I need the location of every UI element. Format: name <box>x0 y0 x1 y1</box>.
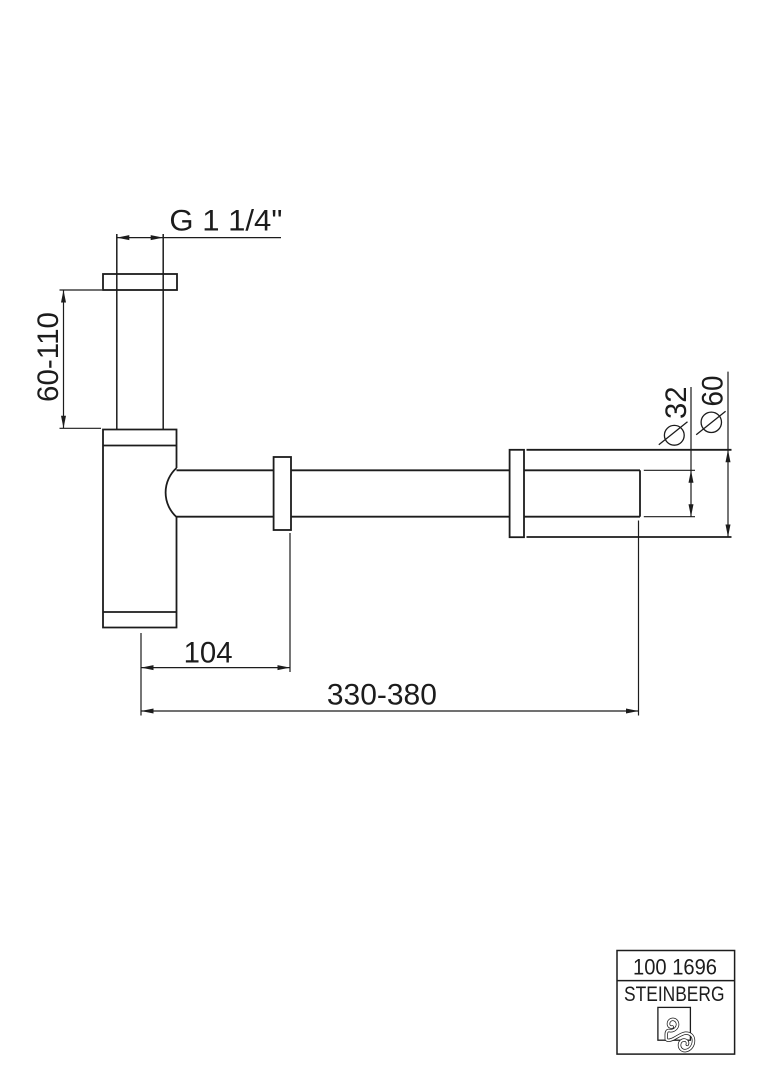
svg-text:330-380: 330-380 <box>327 679 437 712</box>
svg-text:100 1696: 100 1696 <box>633 955 717 980</box>
svg-text:G 1 1/4": G 1 1/4" <box>169 205 282 238</box>
svg-text:STEINBERG: STEINBERG <box>624 982 725 1006</box>
svg-text:60-110: 60-110 <box>32 312 65 402</box>
svg-text:60: 60 <box>697 376 730 407</box>
svg-text:104: 104 <box>184 637 233 670</box>
svg-text:32: 32 <box>660 387 693 420</box>
